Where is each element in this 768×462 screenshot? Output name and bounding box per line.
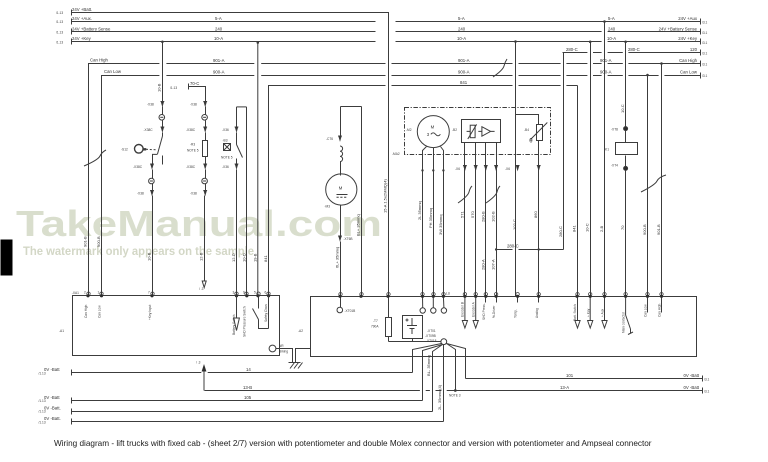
svg-text:+Key Input: +Key Input xyxy=(148,305,152,320)
svg-text:LU: LU xyxy=(446,292,451,296)
svg-text:280-C: 280-C xyxy=(507,244,519,249)
wire splice straight down xyxy=(443,345,445,422)
svg-text:-XA1: -XA1 xyxy=(72,291,79,295)
svg-text:-XT6B: -XT6B xyxy=(344,237,353,241)
junction Can Low at 258 xyxy=(257,41,260,44)
wire chain1 to switch xyxy=(162,133,164,137)
pin dot A1 Can Low xyxy=(100,294,103,297)
cable slash can mid xyxy=(493,59,507,77)
connector XT6B xyxy=(338,236,342,240)
svg-text:10-C: 10-C xyxy=(585,223,590,232)
terminal circle M2-b xyxy=(431,308,436,313)
svg-text:/3.1: /3.1 xyxy=(702,52,708,56)
wire 19-B drop xyxy=(257,43,259,297)
svg-text:900-B: 900-B xyxy=(642,224,647,235)
switch S12 jog xyxy=(153,154,158,164)
pin dot A1 Key input xyxy=(150,294,153,297)
wire 13-B xyxy=(205,390,703,392)
pressure switch B3 cross xyxy=(224,144,231,151)
wire B4 bottom down xyxy=(538,141,540,167)
wire 24V +Battery Sense bus L3 right xyxy=(396,31,602,33)
thermistor B4 arrow xyxy=(531,123,548,140)
wire chain3 xyxy=(236,159,238,165)
svg-text:-XT8: -XT8 xyxy=(611,127,618,131)
svg-text:900-A: 900-A xyxy=(213,69,225,74)
svg-text:%-Driver: %-Driver xyxy=(492,305,496,318)
switch S12 blade xyxy=(158,136,163,154)
svg-text:-X38: -X38 xyxy=(147,103,154,107)
wire M2 phase 3W xyxy=(441,147,444,297)
wire chain2 xyxy=(205,107,207,115)
wire NR to ground xyxy=(276,349,293,363)
svg-text:7: 7 xyxy=(148,291,150,295)
wire 901-B left drop xyxy=(88,64,90,297)
svg-text:/1.13: /1.13 xyxy=(56,31,63,35)
svg-text:Safety Chan: Safety Chan xyxy=(264,304,268,322)
svg-text:24V +Battery Sense: 24V +Battery Sense xyxy=(72,26,111,31)
svg-text:240: 240 xyxy=(608,26,616,31)
terminal circle chain1 lower xyxy=(149,178,155,184)
cable slash encoder pair1 xyxy=(458,186,472,203)
wire XT01B stub xyxy=(340,297,342,308)
terminal bracket left L1 xyxy=(71,10,73,16)
svg-text:NOTE 5: NOTE 5 xyxy=(187,149,199,153)
svg-text:-X38C: -X38C xyxy=(144,128,154,132)
capacitor plus xyxy=(406,319,409,322)
wire splice to 14 line xyxy=(413,344,442,373)
terminal bracket 70-C xyxy=(188,84,190,90)
svg-text:280-A: 280-A xyxy=(480,259,485,270)
wire B2 pin1 571 xyxy=(464,143,466,297)
wire chain3 left leg upper xyxy=(236,107,238,128)
wire 280-C lower link xyxy=(497,249,564,251)
svg-text:102-C: 102-C xyxy=(512,219,517,230)
splice node XT01 xyxy=(441,339,447,345)
terminal circle XT01B xyxy=(337,307,343,313)
wire chain2 xyxy=(205,121,207,128)
stub 280-A inside A2 xyxy=(485,297,487,303)
svg-text:5-A: 5-A xyxy=(215,16,222,21)
svg-text:2-B: 2-B xyxy=(599,225,604,232)
wire M2b stub xyxy=(432,297,434,308)
resistor T7 xyxy=(386,318,392,337)
svg-text:5-A: 5-A xyxy=(608,16,615,21)
svg-text:70-C: 70-C xyxy=(190,81,199,86)
wire 70 to A2 xyxy=(625,171,627,297)
connector X36 chain3 lower xyxy=(235,164,239,168)
sheet arrow down chain2 xyxy=(202,281,206,288)
wire chain3 left leg to A1 xyxy=(236,170,238,297)
wire splice to 13-A xyxy=(447,344,456,391)
svg-text:570: 570 xyxy=(470,211,475,218)
svg-text:-X38C: -X38C xyxy=(186,128,196,132)
wire chain3 xyxy=(236,133,238,145)
connector X38 chain2 top xyxy=(203,102,207,106)
svg-text:0V -Batt: 0V -Batt xyxy=(683,385,699,390)
svg-text:/3.1: /3.1 xyxy=(704,378,710,382)
svg-text:/ .3: / .3 xyxy=(196,361,201,365)
svg-text:BL+ 35mmq: BL+ 35mmq xyxy=(355,214,360,236)
svg-text:Can High: Can High xyxy=(679,58,698,63)
terminal circle chain2 upper xyxy=(202,115,208,121)
svg-text:-S12: -S12 xyxy=(121,148,128,152)
pin dot A2 443 xyxy=(442,295,445,298)
svg-text:280-C: 280-C xyxy=(566,47,578,52)
svg-text:-X36: -X36 xyxy=(222,165,229,169)
wire T7 stub xyxy=(388,297,390,318)
terminal circle M2-c xyxy=(441,308,446,313)
wire B4 loop up-over xyxy=(516,115,539,125)
svg-text:-X38: -X38 xyxy=(137,191,144,195)
terminal bracket 14 xyxy=(71,370,73,376)
svg-text:Can Low: Can Low xyxy=(680,69,698,74)
black censor rectangle left edge xyxy=(1,240,13,276)
wire splice to 101 xyxy=(447,344,466,379)
chassis ground A2 xyxy=(289,363,303,369)
svg-text:12-B: 12-B xyxy=(199,252,204,261)
wire 6L+ to A2 xyxy=(340,242,342,297)
svg-text:/3.1: /3.1 xyxy=(702,63,708,67)
wire chain3 right leg xyxy=(246,107,248,297)
svg-text:/1.13: /1.13 xyxy=(56,11,63,15)
svg-text:24V +Key: 24V +Key xyxy=(678,36,698,41)
terminal bracket left L3 xyxy=(71,29,73,35)
sheet arrow inside A1 xyxy=(234,296,240,331)
svg-text:Analog: Analog xyxy=(535,308,539,318)
terminal circle chain1 upper xyxy=(159,115,165,121)
wire 10-B down to A1 xyxy=(152,196,154,297)
svg-text:-A1: -A1 xyxy=(59,329,64,333)
capacitor symbol xyxy=(407,318,417,334)
junction on +Key at chain1 xyxy=(161,41,164,44)
svg-text:Wiring diagram - lift trucks w: Wiring diagram - lift trucks with fixed … xyxy=(54,439,652,448)
connector X38C chain1 xyxy=(161,127,165,131)
svg-text:-XT09B: -XT09B xyxy=(425,334,436,338)
svg-text:901-B: 901-B xyxy=(656,224,661,235)
stub 107-A inside A2 xyxy=(496,297,498,303)
svg-text:+ Key: + Key xyxy=(586,308,590,317)
wire chain1 xyxy=(152,170,154,179)
switch S12 actuator circle xyxy=(135,145,144,154)
svg-text:+ Aux: + Aux xyxy=(601,309,605,317)
wire 101 xyxy=(466,378,703,380)
svg-text:0V -Batt: 0V -Batt xyxy=(44,395,60,400)
wire 24V +Key bus L4 left xyxy=(72,41,376,43)
wire chain2 xyxy=(205,184,207,191)
wire M2 phase 2L xyxy=(423,147,427,297)
wire relay feed upper xyxy=(625,42,627,127)
junction 10-C on key bus xyxy=(589,41,592,44)
B2 variable resistor arrow xyxy=(467,124,477,139)
motor M3 circle xyxy=(326,174,357,205)
svg-text:2L 35mmq: 2L 35mmq xyxy=(417,201,422,220)
pin dot A2 476 xyxy=(474,295,477,298)
safety chain stub xyxy=(258,296,260,309)
svg-text:/3.1: /3.1 xyxy=(702,41,708,45)
svg-text:Can High: Can High xyxy=(90,58,109,63)
resistor R3 xyxy=(203,141,208,157)
junction dot 3W xyxy=(442,169,444,171)
pin rings A1 xyxy=(87,292,270,295)
svg-text:/1.13: /1.13 xyxy=(39,371,46,375)
wire splice to 105 line xyxy=(423,345,443,401)
svg-text:Can High: Can High xyxy=(658,303,662,317)
pin dot A1 19-B xyxy=(256,294,259,297)
relay coil K1 xyxy=(616,143,638,155)
wire 102-C xyxy=(515,42,517,297)
svg-text:Encoder A: Encoder A xyxy=(471,301,475,317)
svg-text:240: 240 xyxy=(215,26,223,31)
svg-text:-B4: -B4 xyxy=(524,128,529,132)
svg-text:5-A: 5-A xyxy=(458,16,465,21)
svg-text:900-A: 900-A xyxy=(600,69,612,74)
svg-text:13-A: 13-A xyxy=(560,385,569,390)
pin dot A1 chain3b xyxy=(245,294,248,297)
pin dot A2 518 xyxy=(516,295,519,298)
svg-text:Can Low: Can Low xyxy=(98,305,102,318)
wire 0V-Batt line D xyxy=(72,411,433,413)
connector arrow 10-C inside A2 xyxy=(588,297,593,329)
svg-text:/3.1: /3.1 xyxy=(702,31,708,35)
svg-text:M: M xyxy=(339,186,343,191)
svg-text:102-B: 102-B xyxy=(491,211,496,222)
wire M3 loop top xyxy=(341,106,362,108)
svg-text:901-A: 901-A xyxy=(600,58,612,63)
pin dot A2 465 xyxy=(463,295,466,298)
wire splice rail xyxy=(389,341,441,343)
svg-text:SHD Pressure Switch: SHD Pressure Switch xyxy=(242,306,246,337)
svg-text:860: 860 xyxy=(533,211,538,218)
svg-text:-X38C: -X38C xyxy=(186,165,196,169)
wire chain2 xyxy=(205,157,207,165)
terminal circle XT8 xyxy=(624,127,628,131)
pin dot A2 422 xyxy=(421,295,424,298)
wire 0V-Batt 105 line xyxy=(72,400,423,402)
wire M3 xyxy=(340,162,342,176)
wire chain1 xyxy=(162,107,164,115)
svg-text:10-D: 10-D xyxy=(241,253,246,262)
svg-text:12-D: 12-D xyxy=(231,253,236,262)
svg-text:-XT01: -XT01 xyxy=(427,329,436,333)
svg-text:Can High: Can High xyxy=(84,304,88,318)
terminal bracket E xyxy=(71,419,73,425)
inductor coil M3 xyxy=(340,146,343,162)
svg-text:/1.13: /1.13 xyxy=(56,20,63,24)
wire chain2 down to sheet arrow xyxy=(204,196,206,282)
junction relay feed on key bus xyxy=(624,41,627,44)
svg-text:-R3: -R3 xyxy=(190,143,195,147)
wire M2 phase PH xyxy=(433,148,435,297)
svg-text:The watermark only appears on: The watermark only appears on the sample xyxy=(23,246,254,258)
junction dot 2L xyxy=(421,169,423,171)
svg-text:-XT01B: -XT01B xyxy=(345,309,356,313)
svg-text:0V -Batt.: 0V -Batt. xyxy=(44,416,61,421)
svg-text:Temp.: Temp. xyxy=(514,309,518,318)
wire M3 below xyxy=(340,206,342,237)
svg-text:-K1: -K1 xyxy=(604,148,609,152)
wire 860 xyxy=(538,167,540,297)
svg-text:NOTE 3: NOTE 3 xyxy=(449,394,461,398)
svg-text:/1.13: /1.13 xyxy=(39,420,46,424)
pin dot A2 626 xyxy=(624,295,627,298)
svg-text:-X38C: -X38C xyxy=(133,165,143,169)
wire chain1 upper xyxy=(162,42,164,102)
connector arrow 841 inside A2 xyxy=(575,297,580,329)
stub can low inside A2 xyxy=(647,297,649,313)
svg-text:/1.13: /1.13 xyxy=(39,399,46,403)
wire A2 ground left xyxy=(296,349,311,363)
terminal bracket left L4 xyxy=(71,39,73,45)
svg-text:15-A 1.5x2MMQ(4): 15-A 1.5x2MMQ(4) xyxy=(382,179,387,213)
svg-text:-X6: -X6 xyxy=(455,167,460,171)
B2 variable resistor symbol xyxy=(470,125,475,138)
switch S2 blade xyxy=(237,145,243,158)
wire chain2 xyxy=(205,170,207,179)
junction 280-C at 538 xyxy=(538,248,540,250)
svg-text:107-A: 107-A xyxy=(491,259,496,270)
connector X38C chain1 lower xyxy=(150,164,154,168)
wire 24V +Aux bus L2 right xyxy=(396,21,701,23)
wire chain1 xyxy=(152,184,154,191)
svg-text:101: 101 xyxy=(566,373,574,378)
svg-text:841: 841 xyxy=(571,225,576,232)
wire 280-C right drop xyxy=(563,53,565,250)
wire Can High bus xyxy=(89,64,160,297)
svg-text:-CT6: -CT6 xyxy=(326,137,333,141)
svg-text:24V +Batt.: 24V +Batt. xyxy=(72,7,92,12)
pin dot A2 539 xyxy=(537,295,540,298)
terminal bracket D xyxy=(71,409,73,415)
svg-text:-MA2: -MA2 xyxy=(392,152,400,156)
connector X38 chain2 bottom xyxy=(203,191,207,195)
terminal circle M2-a xyxy=(420,308,425,313)
wire splice to line D xyxy=(433,345,443,412)
svg-text:/1.13: /1.13 xyxy=(39,410,46,414)
svg-text:NR: NR xyxy=(279,344,284,348)
controller box A1 xyxy=(73,296,280,356)
svg-text:105: 105 xyxy=(244,395,252,400)
svg-text:280-B: 280-B xyxy=(480,211,485,222)
svg-text:901-A: 901-A xyxy=(213,58,225,63)
svg-text:900-B: 900-B xyxy=(96,236,101,247)
terminal circle chain2 lower xyxy=(202,178,208,184)
wire 24V +Battery Sense bus L3 left xyxy=(72,31,376,33)
junction 13-A xyxy=(454,389,457,392)
junction 901-B right xyxy=(660,62,663,65)
wire M2c stub xyxy=(442,297,445,308)
connector arrow encoder A inside A2 xyxy=(473,297,478,329)
connector X6 arrows row xyxy=(463,166,541,170)
wire 0V-Batt line E xyxy=(72,421,444,423)
svg-text:Batt. Switch: Batt. Switch xyxy=(573,304,577,321)
svg-text:-B2: -B2 xyxy=(452,128,457,132)
wire chain3 loop top xyxy=(237,106,247,108)
svg-text:24V +Aux: 24V +Aux xyxy=(678,16,698,21)
svg-text:10-A: 10-A xyxy=(457,36,466,41)
svg-text:14: 14 xyxy=(246,367,251,372)
svg-text:120: 120 xyxy=(690,47,698,52)
B2 amp triangle xyxy=(478,127,494,137)
wire relay feed xyxy=(625,131,627,143)
svg-text:901-A: 901-A xyxy=(458,58,470,63)
svg-text:BL- 35mmq: BL- 35mmq xyxy=(426,355,431,376)
connector X36 chain3 top xyxy=(235,127,239,131)
svg-text:6: 6 xyxy=(265,291,267,295)
pin dot A1 Can High xyxy=(86,294,89,297)
pin dot A1 841 xyxy=(267,294,270,297)
wire BL+ right leg xyxy=(361,107,363,297)
svg-text:5: 5 xyxy=(254,291,256,295)
svg-text:790A: 790A xyxy=(371,325,379,329)
svg-text:/3.1: /3.1 xyxy=(702,74,708,78)
svg-text:6L+ 35mmq: 6L+ 35mmq xyxy=(334,247,339,268)
connector arrow 2-B inside A2 xyxy=(602,297,607,329)
svg-text:M: M xyxy=(431,125,435,130)
terminal bracket left L2 xyxy=(71,19,73,25)
svg-text:SHD Press.: SHD Press. xyxy=(482,303,486,320)
wire B2 pin3 280-B xyxy=(485,143,487,297)
svg-text:-X6: -X6 xyxy=(505,167,510,171)
svg-text:841: 841 xyxy=(263,255,268,262)
pin dot A2 496 xyxy=(495,295,498,298)
safety chain return xyxy=(268,296,270,329)
svg-text:841: 841 xyxy=(460,80,468,85)
pin dot A2 388 xyxy=(386,295,389,298)
svg-text:10-B: 10-B xyxy=(147,252,152,261)
svg-text:/ .3: / .3 xyxy=(199,287,204,291)
terminal bracket right rows xyxy=(700,19,702,25)
pin dot A1 chain3a xyxy=(235,294,238,297)
wire T7 to splice rail xyxy=(388,337,390,342)
wire 841 bus xyxy=(269,86,386,297)
wire M2a stub xyxy=(422,297,424,308)
wire Can Low bus xyxy=(102,76,160,297)
connector X38 chain1 bottom xyxy=(150,191,154,195)
junction 900-B right xyxy=(646,74,649,77)
svg-text:24V +Battery Sense: 24V +Battery Sense xyxy=(659,26,698,31)
cable slash encoder pair2 xyxy=(486,186,500,203)
switch S12 actuator link xyxy=(146,148,157,151)
wire 841 right drop handled above; wire 10-C drop xyxy=(590,42,592,297)
svg-text:-B3: -B3 xyxy=(223,139,228,143)
svg-text:/3.1: /3.1 xyxy=(704,390,710,394)
terminal circle XT4 xyxy=(624,166,628,170)
wire 24V +Aux bus L2 left xyxy=(72,21,376,23)
pin dot A2 577 xyxy=(575,295,578,298)
pin dot A2 590 xyxy=(589,295,592,298)
encoder B2 box xyxy=(462,120,501,143)
svg-text:1: 1 xyxy=(98,291,100,295)
wire cap to rail xyxy=(412,339,414,342)
svg-text:70: 70 xyxy=(620,225,625,230)
wire relay out xyxy=(625,156,627,167)
svg-text:0V -Batt: 0V -Batt xyxy=(44,367,60,372)
svg-text:/1.13: /1.13 xyxy=(56,40,63,44)
svg-text:-M3: -M3 xyxy=(325,205,331,209)
svg-text:280-C: 280-C xyxy=(558,226,563,237)
motor M2 circle xyxy=(417,116,449,148)
svg-text:Brking: Brking xyxy=(279,350,288,354)
svg-text:3W 35mmq: 3W 35mmq xyxy=(438,215,443,235)
wire 901-B right drop xyxy=(661,64,663,297)
svg-text:24V +Aux.: 24V +Aux. xyxy=(72,16,92,21)
sheet arrow up at 13-B xyxy=(203,367,205,391)
pin dot A2 605 xyxy=(603,295,606,298)
switch S12 actuator nub xyxy=(143,148,146,150)
pin dot A2 433 xyxy=(432,295,435,298)
pressure switch B3 box xyxy=(224,144,231,151)
svg-text:-X36: -X36 xyxy=(222,128,229,132)
